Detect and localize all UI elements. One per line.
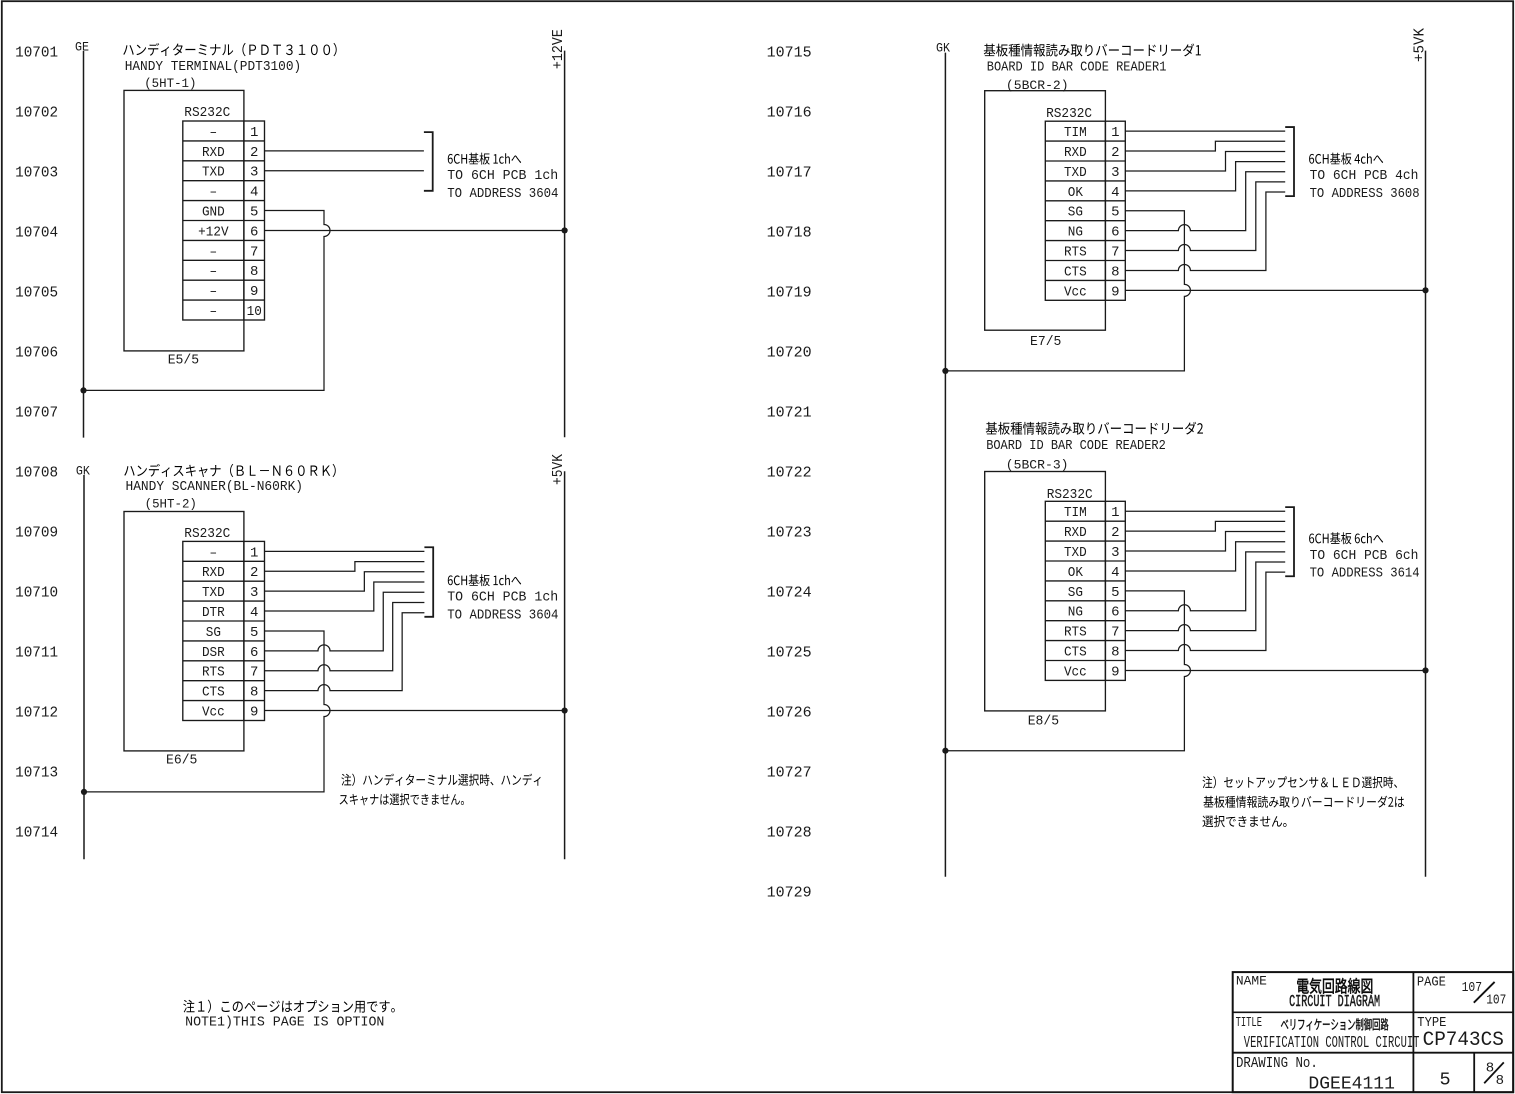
svg-text:–: – (210, 264, 218, 280)
svg-text:E5/5: E5/5 (168, 353, 199, 369)
svg-text:6: 6 (250, 224, 258, 240)
svg-text:TITLE: TITLE (1236, 1015, 1262, 1031)
svg-text:5: 5 (1440, 1070, 1451, 1091)
svg-text:1: 1 (250, 545, 258, 561)
svg-text:(5BCR-2): (5BCR-2) (1006, 78, 1069, 93)
svg-text:TXD: TXD (202, 165, 225, 181)
svg-text:3: 3 (250, 585, 258, 601)
svg-text:–: – (210, 244, 218, 260)
svg-text:NAME: NAME (1236, 974, 1267, 989)
svg-text:SG: SG (1068, 205, 1083, 221)
svg-text:10721: 10721 (767, 405, 812, 422)
svg-text:10707: 10707 (15, 405, 58, 422)
svg-text:SG: SG (206, 625, 221, 641)
svg-text:7: 7 (250, 665, 258, 681)
svg-text:10728: 10728 (767, 825, 812, 842)
svg-text:E7/5: E7/5 (1030, 334, 1061, 350)
svg-text:(5HT-2): (5HT-2) (145, 497, 197, 512)
svg-text:OK: OK (1068, 565, 1084, 581)
svg-text:TO ADDRESS 3608: TO ADDRESS 3608 (1310, 186, 1420, 202)
svg-text:RS232C: RS232C (1047, 487, 1093, 503)
svg-text:4: 4 (1111, 565, 1119, 581)
svg-text:TO ADDRESS 3604: TO ADDRESS 3604 (447, 186, 558, 202)
svg-text:+12V: +12V (198, 224, 229, 240)
svg-text:GK: GK (936, 40, 950, 55)
svg-text:10711: 10711 (15, 645, 58, 662)
svg-text:3: 3 (250, 165, 258, 181)
svg-text:Vcc: Vcc (1064, 284, 1087, 300)
svg-text:NG: NG (1068, 225, 1083, 241)
svg-text:8: 8 (250, 685, 258, 701)
svg-text:5: 5 (250, 625, 258, 641)
svg-text:10724: 10724 (767, 585, 812, 602)
svg-text:HANDY SCANNER(BL-N60RK): HANDY SCANNER(BL-N60RK) (126, 479, 304, 495)
svg-text:RTS: RTS (202, 665, 225, 681)
svg-text:4: 4 (1111, 185, 1119, 201)
svg-text:107: 107 (1462, 980, 1483, 996)
svg-text:10727: 10727 (767, 765, 812, 782)
svg-text:Vcc: Vcc (1064, 664, 1087, 680)
svg-text:RS232C: RS232C (184, 105, 230, 121)
svg-text:10710: 10710 (15, 585, 58, 602)
svg-text:3: 3 (1111, 165, 1119, 181)
svg-text:CP743CS: CP743CS (1423, 1029, 1504, 1052)
svg-text:9: 9 (250, 704, 258, 720)
svg-text:+5VK: +5VK (1411, 28, 1428, 62)
svg-text:8: 8 (1111, 644, 1119, 660)
svg-text:2: 2 (250, 565, 258, 581)
svg-text:9: 9 (1111, 284, 1119, 300)
svg-text:TO ADDRESS 3604: TO ADDRESS 3604 (447, 607, 558, 623)
svg-text:–: – (210, 125, 218, 141)
svg-text:–: – (210, 304, 218, 320)
svg-text:+12VE: +12VE (550, 29, 567, 69)
svg-text:10725: 10725 (767, 645, 812, 662)
svg-text:NOTE1)THIS PAGE IS OPTION: NOTE1)THIS PAGE IS OPTION (185, 1015, 384, 1031)
svg-text:RXD: RXD (1064, 525, 1087, 541)
svg-text:TO 6CH PCB 1ch: TO 6CH PCB 1ch (447, 168, 558, 184)
svg-text:TXD: TXD (1064, 545, 1087, 561)
svg-text:7: 7 (1111, 244, 1119, 260)
svg-text:5: 5 (250, 204, 258, 220)
svg-text:BOARD ID BAR CODE READER2: BOARD ID BAR CODE READER2 (986, 438, 1166, 454)
svg-text:CTS: CTS (1064, 644, 1087, 660)
svg-text:(5HT-1): (5HT-1) (144, 76, 196, 91)
svg-text:–: – (210, 284, 218, 300)
svg-text:CTS: CTS (1064, 264, 1087, 280)
svg-text:1: 1 (1111, 505, 1119, 521)
svg-text:TO 6CH PCB 6ch: TO 6CH PCB 6ch (1310, 548, 1419, 564)
svg-text:RS232C: RS232C (184, 526, 230, 542)
svg-text:6: 6 (250, 645, 258, 661)
svg-text:10723: 10723 (767, 525, 812, 542)
svg-text:5: 5 (1111, 205, 1119, 221)
svg-text:CTS: CTS (202, 685, 225, 701)
svg-text:7: 7 (250, 244, 258, 260)
svg-text:DRAWING No.: DRAWING No. (1236, 1055, 1318, 1072)
svg-text:10705: 10705 (15, 285, 58, 302)
svg-text:RTS: RTS (1064, 625, 1087, 641)
svg-text:(5BCR-3): (5BCR-3) (1006, 457, 1069, 472)
svg-text:4: 4 (250, 605, 258, 621)
svg-text:E6/5: E6/5 (166, 753, 197, 769)
svg-text:TO ADDRESS 3614: TO ADDRESS 3614 (1310, 565, 1420, 581)
svg-text:10717: 10717 (767, 165, 812, 182)
svg-text:9: 9 (250, 284, 258, 300)
svg-text:10719: 10719 (767, 285, 812, 302)
svg-text:107: 107 (1486, 992, 1506, 1008)
svg-text:Vcc: Vcc (202, 704, 225, 720)
svg-text:5: 5 (1111, 585, 1119, 601)
svg-text:2: 2 (250, 145, 258, 161)
svg-text:10722: 10722 (767, 465, 812, 482)
svg-text:GK: GK (76, 463, 90, 478)
svg-text:8: 8 (1496, 1073, 1504, 1089)
svg-text:RS232C: RS232C (1046, 106, 1092, 122)
svg-text:TO 6CH PCB 1ch: TO 6CH PCB 1ch (447, 590, 558, 606)
svg-text:10702: 10702 (15, 105, 58, 122)
svg-text:GND: GND (202, 204, 225, 220)
svg-text:10712: 10712 (15, 705, 58, 722)
svg-text:CIRCUIT DIAGRAM: CIRCUIT DIAGRAM (1289, 993, 1380, 1012)
svg-text:TO 6CH PCB 4ch: TO 6CH PCB 4ch (1310, 168, 1419, 184)
svg-text:TIM: TIM (1064, 505, 1087, 521)
svg-text:10718: 10718 (767, 225, 812, 242)
svg-text:TXD: TXD (1064, 165, 1087, 181)
svg-text:10714: 10714 (15, 825, 58, 842)
svg-text:1: 1 (250, 125, 258, 141)
svg-text:DSR: DSR (202, 645, 225, 661)
svg-text:OK: OK (1068, 185, 1084, 201)
svg-text:8: 8 (250, 264, 258, 280)
svg-text:4: 4 (250, 185, 258, 201)
svg-text:10726: 10726 (767, 705, 812, 722)
svg-text:10701: 10701 (15, 45, 58, 62)
svg-text:10708: 10708 (15, 465, 58, 482)
svg-text:RTS: RTS (1064, 244, 1087, 260)
svg-text:10706: 10706 (15, 345, 58, 362)
svg-text:9: 9 (1111, 664, 1119, 680)
svg-text:6: 6 (1111, 225, 1119, 241)
svg-text:GE: GE (75, 39, 89, 54)
svg-text:RXD: RXD (1064, 145, 1087, 161)
svg-text:VERIFICATION CONTROL CIRCUIT: VERIFICATION CONTROL CIRCUIT (1244, 1034, 1420, 1053)
svg-text:–: – (210, 185, 218, 201)
svg-text:2: 2 (1111, 145, 1119, 161)
svg-text:10729: 10729 (767, 885, 812, 902)
svg-text:10709: 10709 (15, 525, 58, 542)
svg-text:2: 2 (1111, 525, 1119, 541)
svg-text:PAGE: PAGE (1417, 976, 1446, 991)
svg-text:10704: 10704 (15, 225, 58, 242)
svg-text:10715: 10715 (767, 45, 812, 62)
svg-text:TXD: TXD (202, 585, 225, 601)
svg-text:3: 3 (1111, 545, 1119, 561)
svg-text:8: 8 (1111, 264, 1119, 280)
svg-text:TIM: TIM (1064, 125, 1087, 141)
svg-text:7: 7 (1111, 625, 1119, 641)
svg-text:BOARD ID BAR CODE READER1: BOARD ID BAR CODE READER1 (987, 60, 1167, 76)
svg-text:E8/5: E8/5 (1028, 714, 1059, 730)
svg-text:10720: 10720 (767, 345, 812, 362)
svg-text:–: – (210, 545, 218, 561)
svg-text:RXD: RXD (202, 565, 225, 581)
svg-text:10703: 10703 (15, 165, 58, 182)
svg-text:DGEE4111: DGEE4111 (1308, 1075, 1395, 1094)
svg-text:NG: NG (1068, 605, 1083, 621)
svg-text:SG: SG (1068, 585, 1083, 601)
svg-text:1: 1 (1111, 125, 1119, 141)
svg-text:HANDY TERMINAL(PDT3100): HANDY TERMINAL(PDT3100) (125, 59, 302, 75)
svg-text:DTR: DTR (202, 605, 225, 621)
svg-text:10713: 10713 (15, 765, 58, 782)
svg-text:6: 6 (1111, 605, 1119, 621)
svg-text:10: 10 (247, 304, 262, 320)
svg-text:10716: 10716 (767, 105, 812, 122)
svg-text:RXD: RXD (202, 145, 225, 161)
svg-text:+5VK: +5VK (550, 454, 567, 485)
